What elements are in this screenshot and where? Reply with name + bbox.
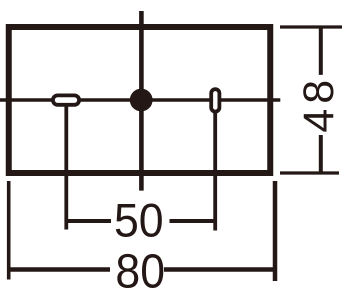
80 dimension line left segment [9, 267, 110, 271]
50 dimension line left segment [65, 219, 112, 223]
fixture body rectangle [9, 27, 271, 173]
horizontal centerline [0, 98, 280, 102]
right slot extension line / 50 dim right tick [213, 112, 217, 231]
svg-text:50: 50 [114, 194, 164, 246]
48 dimension line top segment [319, 27, 323, 75]
left slot extension line / 50 dim left tick [64, 104, 68, 230]
left mounting slot [53, 95, 79, 104]
svg-text:80: 80 [115, 244, 165, 297]
80 dimension line right segment [164, 267, 277, 271]
right mounting slot [211, 89, 219, 111]
center knockout circle [130, 89, 153, 112]
80 dim right extension line / tick [273, 181, 278, 281]
svg-text:48: 48 [295, 75, 343, 133]
48 dim bottom extension line [280, 171, 339, 174]
48 dimension line bottom segment [319, 135, 323, 172]
48 dim top extension line [280, 25, 342, 28]
50 dimension line right segment [170, 219, 218, 223]
vertical centerline [139, 11, 144, 191]
80 dim left extension line / tick [7, 181, 11, 280]
